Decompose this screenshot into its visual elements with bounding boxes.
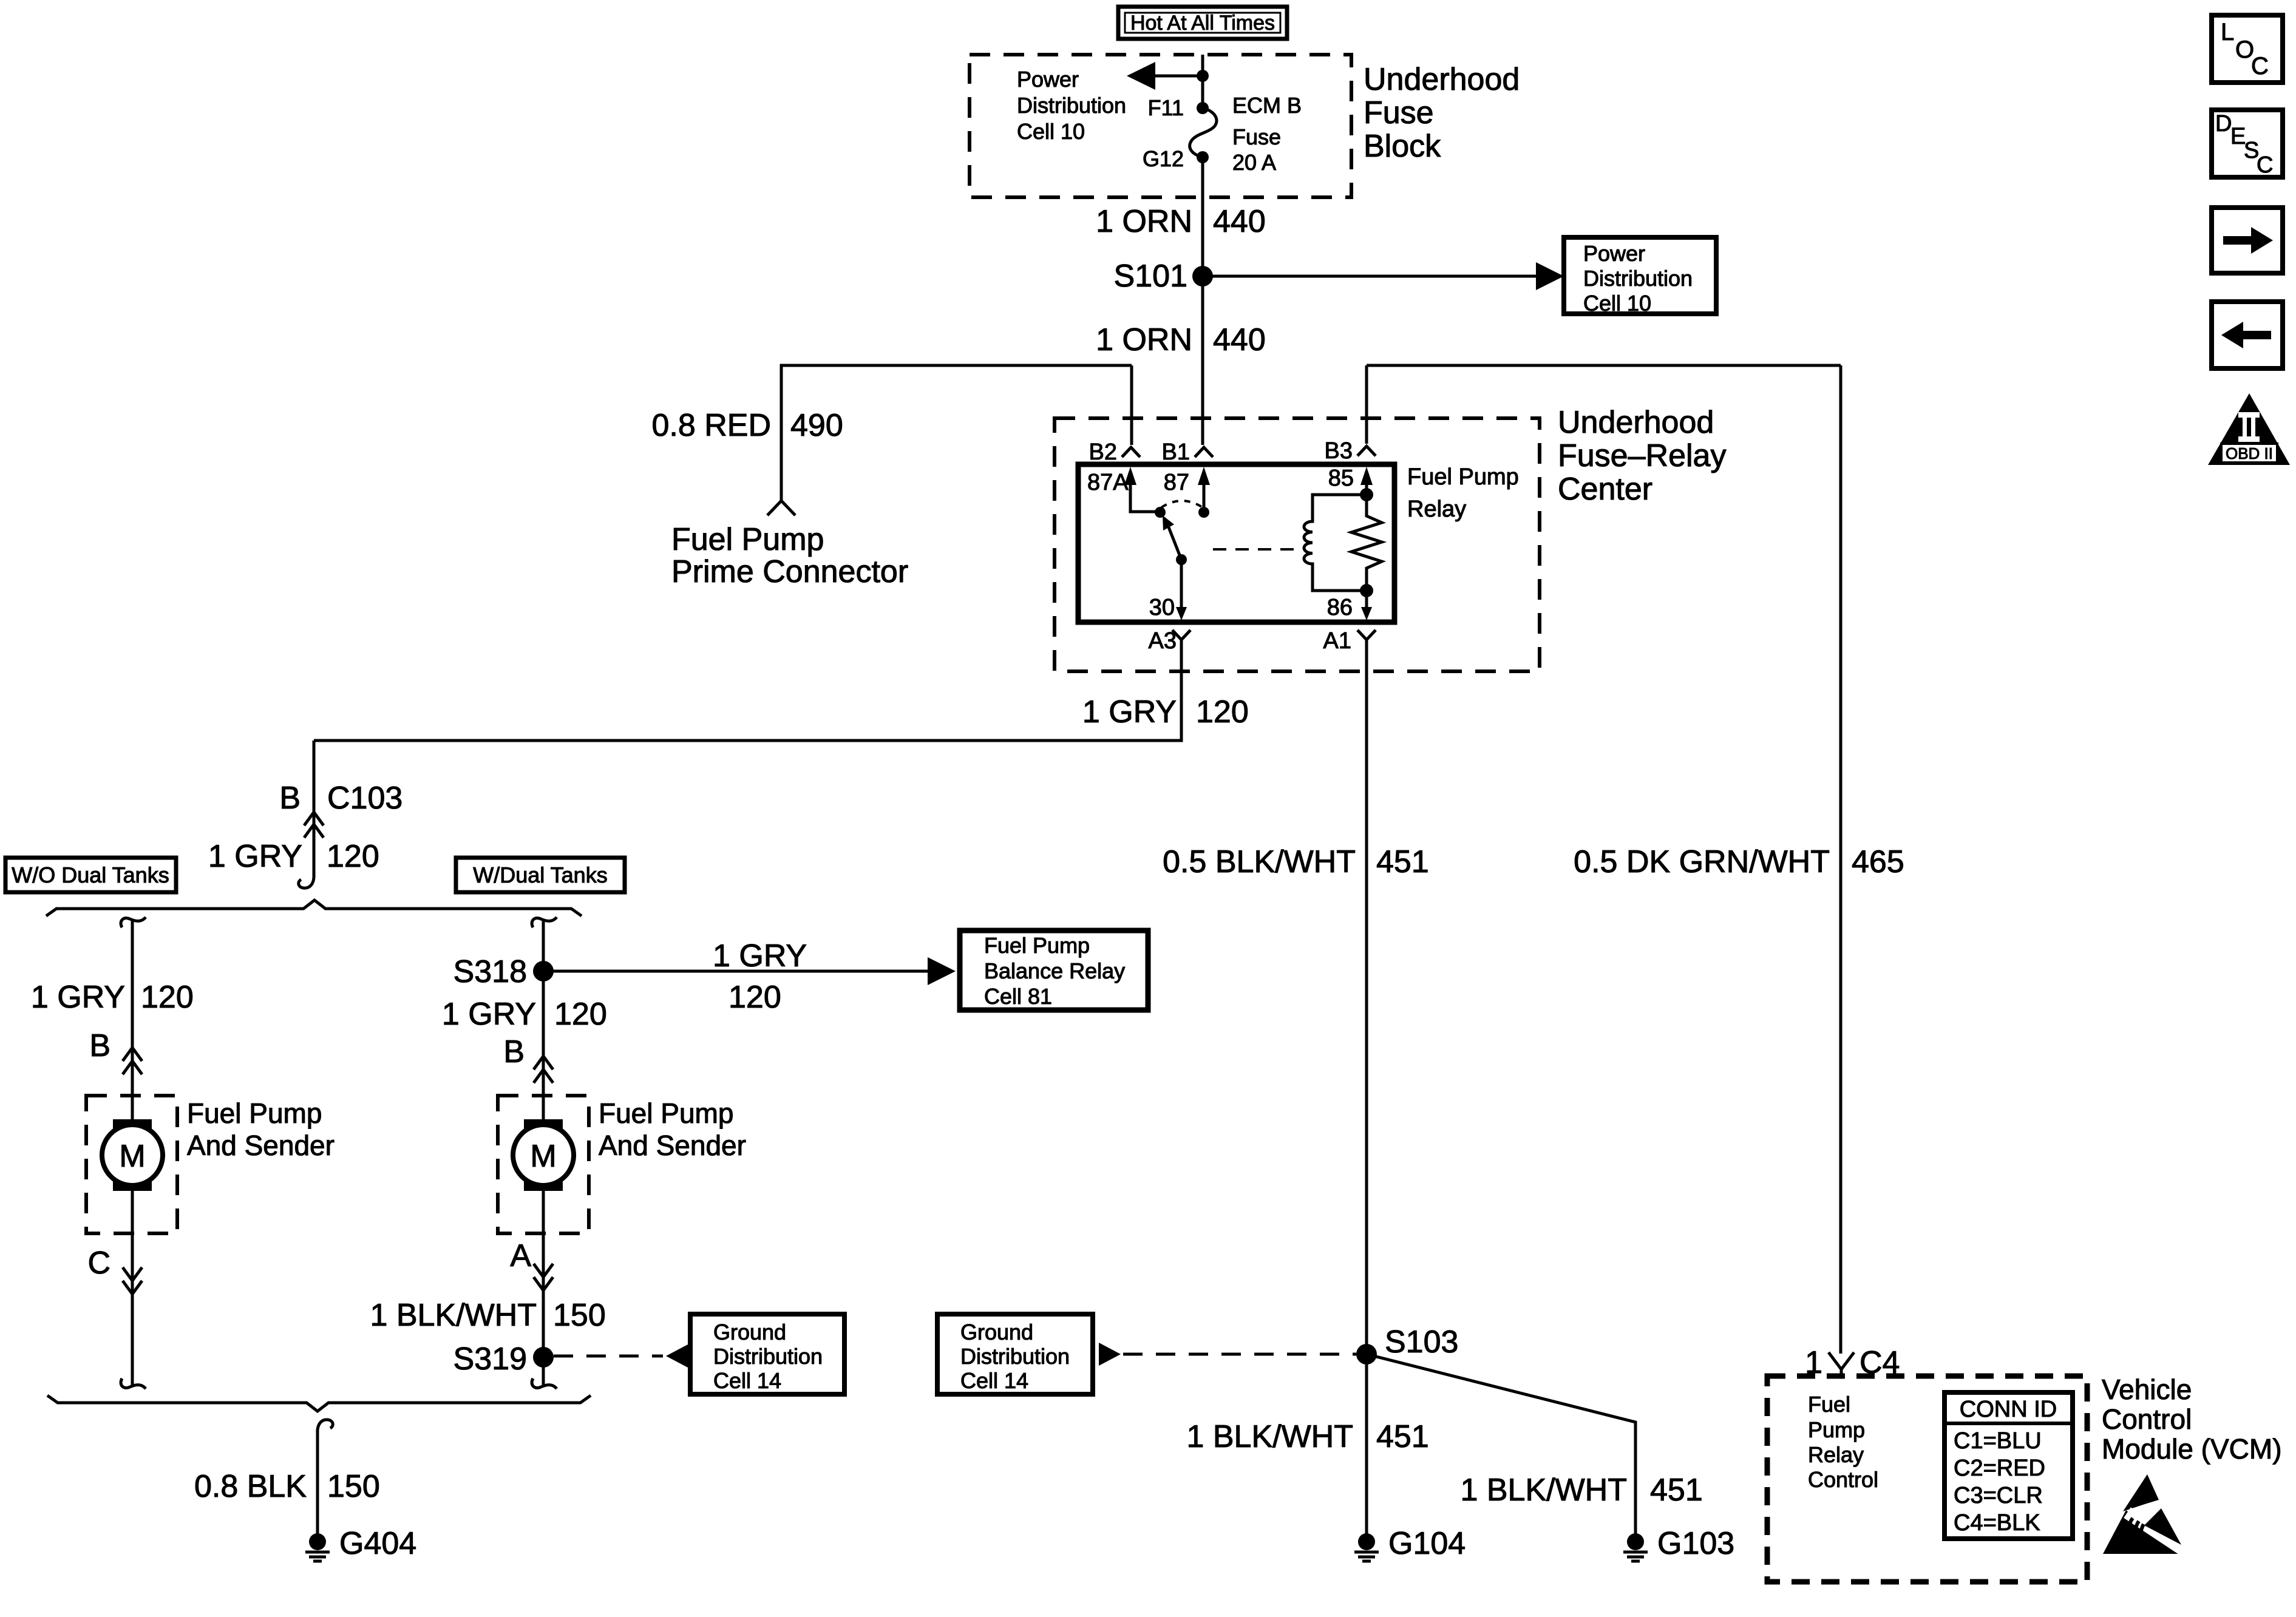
label 1 GRY 120 (left branch) xyxy=(31,980,194,1015)
inline connector chevrons (left pump feed) xyxy=(123,1048,142,1074)
svg-text:A1: A1 xyxy=(1323,628,1351,654)
svg-text:0.8 BLK: 0.8 BLK xyxy=(194,1469,307,1504)
splice S318 xyxy=(453,954,554,989)
svg-text:G12: G12 xyxy=(1143,146,1184,171)
svg-text:G103: G103 xyxy=(1657,1526,1734,1561)
svg-text:1 GRY: 1 GRY xyxy=(442,997,536,1032)
connector C103 double chevron xyxy=(304,812,324,838)
inline connector chevrons (right pump return) xyxy=(534,1264,553,1290)
svg-text:85: 85 xyxy=(1328,466,1354,491)
wire below left pump xyxy=(131,1185,134,1385)
svg-text:451: 451 xyxy=(1376,844,1429,880)
margin icon DESC box xyxy=(2212,110,2283,178)
svg-text:451: 451 xyxy=(1650,1473,1703,1508)
pin 30 arrow xyxy=(1176,560,1187,620)
svg-text:451: 451 xyxy=(1376,1419,1429,1454)
svg-text:1 BLK/WHT: 1 BLK/WHT xyxy=(1187,1419,1354,1454)
left branch continuation curl xyxy=(121,917,146,927)
ground G103 xyxy=(1623,1526,1734,1561)
svg-text:C: C xyxy=(87,1246,110,1281)
box Power Distribution Cell 10 xyxy=(1564,237,1716,316)
ground G404 xyxy=(305,1526,416,1561)
pin 87A arrow xyxy=(1124,467,1160,512)
center continuation curl below bracket xyxy=(318,1420,333,1434)
svg-text:C103: C103 xyxy=(327,781,402,816)
pin 86 arrow xyxy=(1360,584,1373,620)
svg-text:490: 490 xyxy=(790,408,843,443)
wire 1 ORN 440 fuse to S101 xyxy=(1201,157,1204,276)
option merge bracket (bottom) xyxy=(47,1395,591,1411)
relay resistor xyxy=(1351,495,1382,591)
svg-text:W/O Dual Tanks: W/O Dual Tanks xyxy=(12,863,169,887)
svg-text:120: 120 xyxy=(141,980,194,1015)
svg-text:1 ORN: 1 ORN xyxy=(1096,204,1192,239)
svg-text:Hot At All Times: Hot At All Times xyxy=(1130,12,1275,35)
svg-text:440: 440 xyxy=(1213,204,1266,239)
wire right branch to S318 xyxy=(542,921,545,1125)
svg-text:M: M xyxy=(530,1139,556,1174)
svg-text:120: 120 xyxy=(327,839,379,874)
wire 0.5 DK GRN/WHT 465 riser down to VCM xyxy=(1839,365,1843,1354)
wire S101 to Power Distribution Cell 10 xyxy=(1203,262,1564,290)
svg-text:B: B xyxy=(279,781,301,816)
pin 87 arrow xyxy=(1198,467,1210,512)
svg-text:1 GRY: 1 GRY xyxy=(1082,694,1177,730)
svg-text:150: 150 xyxy=(327,1469,380,1504)
svg-text:A3: A3 xyxy=(1149,628,1177,654)
box Fuel Pump Balance Relay Cell 81 xyxy=(960,931,1148,1010)
left branch bottom curl xyxy=(121,1378,146,1389)
CONN ID table xyxy=(1944,1392,2073,1539)
wire top horizontal to fuel pump prime connector xyxy=(781,365,1132,500)
svg-text:Fuel PumpAnd Sender: Fuel PumpAnd Sender xyxy=(187,1097,335,1161)
svg-text:1 GRY: 1 GRY xyxy=(31,980,125,1015)
underhood fuse-relay center dashed box xyxy=(1055,418,1540,671)
label 1 GRY 120 (A3 wire) xyxy=(1082,694,1249,730)
margin icon forward arrow box xyxy=(2212,208,2283,273)
svg-text:120: 120 xyxy=(1196,694,1249,730)
svg-text:C: C xyxy=(2257,152,2273,178)
svg-text:F11: F11 xyxy=(1148,95,1184,120)
pin B2 chevron xyxy=(1122,447,1140,457)
svg-text:S101: S101 xyxy=(1114,259,1187,294)
svg-text:W/Dual Tanks: W/Dual Tanks xyxy=(473,863,607,887)
wire top horizontal from relay pin B3 to VCM riser xyxy=(1367,364,1841,367)
pin 85 arrow xyxy=(1360,467,1373,501)
fuse F11/G12 ECM B Fuse 20 A xyxy=(1190,102,1217,163)
inline connector chevrons (right pump feed) xyxy=(534,1056,553,1083)
wire continuation curl above split bracket xyxy=(299,874,314,888)
relay coil xyxy=(1304,495,1367,591)
arrow to Power Distribution Cell 10 (in fuse block) xyxy=(1127,62,1209,90)
wire 0.5 BLK/WHT 451 from pin A1 down to S103 xyxy=(1365,640,1368,1354)
box Ground Distribution Cell 14 (left) xyxy=(690,1314,844,1394)
relay actuation dashed link xyxy=(1213,548,1302,551)
svg-text:1 GRY: 1 GRY xyxy=(713,938,807,974)
svg-text:0.5 BLK/WHT: 0.5 BLK/WHT xyxy=(1163,844,1356,880)
svg-text:0.5 DK GRN/WHT: 0.5 DK GRN/WHT xyxy=(1574,844,1830,880)
dashed wire S319 to ground distribution xyxy=(554,1344,688,1368)
svg-text:B1: B1 xyxy=(1162,439,1190,465)
svg-text:B: B xyxy=(503,1034,525,1070)
right fuel pump motor xyxy=(513,1119,574,1191)
splice S103 xyxy=(1356,1324,1458,1364)
label 1 ORN 440 (upper) xyxy=(1096,204,1266,239)
svg-text:L: L xyxy=(2221,19,2234,46)
pin A3 chevron xyxy=(1172,630,1190,640)
wire S103 down to G104 xyxy=(1365,1354,1368,1534)
svg-text:1 ORN: 1 ORN xyxy=(1096,322,1192,358)
svg-text:0.8 RED: 0.8 RED xyxy=(651,408,771,443)
label 1 BLK/WHT 451 (G103 wire) xyxy=(1461,1473,1703,1508)
svg-text:1 BLK/WHT: 1 BLK/WHT xyxy=(370,1298,537,1333)
ESD sensitive device symbol xyxy=(2103,1474,2183,1554)
right branch continuation curl xyxy=(532,917,557,927)
svg-text:S103: S103 xyxy=(1385,1324,1458,1360)
svg-text:120: 120 xyxy=(554,997,607,1032)
svg-text:M: M xyxy=(119,1139,145,1174)
relay K1 Fuel Pump Relay box xyxy=(1078,464,1394,622)
relay switch dashed arc xyxy=(1161,501,1203,507)
svg-text:440: 440 xyxy=(1213,322,1266,358)
label 1 ORN 440 (lower) xyxy=(1096,322,1266,358)
wire riser to relay pin B2 xyxy=(1130,365,1133,445)
option split bracket (top) xyxy=(46,900,582,916)
label 1 GRY 120 (right branch) xyxy=(442,997,607,1032)
svg-text:S318: S318 xyxy=(453,954,527,989)
svg-text:30: 30 xyxy=(1149,595,1175,620)
wire down to connector C103 xyxy=(313,741,316,877)
svg-text:120: 120 xyxy=(729,980,781,1015)
pin B1 chevron xyxy=(1195,447,1213,457)
wire S101 down to relay pin B1 xyxy=(1201,276,1204,445)
left fuel pump motor xyxy=(102,1119,163,1191)
margin icon LOC box xyxy=(2212,15,2283,83)
label 0.5 BLK/WHT 451 xyxy=(1163,844,1429,880)
svg-text:D: D xyxy=(2215,111,2232,137)
relay switch common contact and arm xyxy=(1155,507,1209,565)
left fuel pump and sender dashed box xyxy=(86,1096,177,1233)
underhood fuse block dashed box xyxy=(970,55,1351,197)
label 0.8 RED 490 xyxy=(651,408,843,443)
svg-text:B3: B3 xyxy=(1325,438,1353,464)
wire S103 diagonal to G103 xyxy=(1367,1354,1635,1534)
label 1 GRY 120 (balance relay wire) xyxy=(713,938,807,1015)
svg-text:C: C xyxy=(2251,53,2269,80)
svg-text:G104: G104 xyxy=(1388,1526,1466,1561)
label box W/O Dual Tanks xyxy=(5,858,176,892)
svg-text:150: 150 xyxy=(553,1298,606,1333)
svg-text:G404: G404 xyxy=(339,1526,416,1561)
svg-text:A: A xyxy=(510,1238,531,1273)
svg-text:S319: S319 xyxy=(453,1341,527,1377)
vehicle control module dashed box xyxy=(1767,1376,2087,1582)
svg-text:465: 465 xyxy=(1852,844,1904,880)
svg-text:87: 87 xyxy=(1164,470,1189,495)
svg-text:1 GRY: 1 GRY xyxy=(208,839,302,874)
svg-text:1 BLK/WHT: 1 BLK/WHT xyxy=(1461,1473,1628,1508)
splice S101 xyxy=(1114,259,1213,294)
inline connector chevrons (left pump return) xyxy=(123,1267,142,1294)
svg-text:OBD II: OBD II xyxy=(2226,444,2273,463)
label box W/Dual Tanks xyxy=(456,858,625,892)
label 0.5 DK GRN/WHT 465 xyxy=(1574,844,1904,880)
label box Hot At All Times xyxy=(1118,7,1287,39)
wire below right pump to S319 xyxy=(542,1185,545,1385)
label 1 GRY 120 (C103 wire) xyxy=(208,839,379,874)
box Ground Distribution Cell 14 (right) xyxy=(937,1314,1093,1394)
svg-text:B: B xyxy=(89,1028,110,1063)
pin A1 chevron xyxy=(1357,630,1376,640)
ground G104 xyxy=(1354,1526,1466,1561)
pin B3 chevron xyxy=(1357,446,1376,456)
svg-text:87A: 87A xyxy=(1087,470,1129,495)
svg-text:86: 86 xyxy=(1327,595,1353,620)
wire 0.8 BLK 150 to G404 xyxy=(316,1430,319,1534)
label 0.8 BLK 150 xyxy=(194,1469,380,1504)
splice S319 xyxy=(453,1341,554,1377)
margin icon back arrow box xyxy=(2212,302,2283,368)
dashed wire ground distribution to S103 xyxy=(1099,1343,1356,1366)
svg-text:B2: B2 xyxy=(1089,439,1117,465)
wire S318 to fuel pump balance relay xyxy=(543,957,956,985)
svg-text:Fuel PumpAnd Sender: Fuel PumpAnd Sender xyxy=(599,1097,746,1161)
label 1 BLK/WHT 451 (G104 wire) xyxy=(1187,1419,1429,1454)
connector C4 pin 1 chevron at VCM xyxy=(1805,1345,1900,1380)
label 1 BLK/WHT 150 xyxy=(370,1298,606,1333)
wire riser relay pin B3 xyxy=(1365,365,1368,444)
right fuel pump and sender dashed box xyxy=(498,1096,589,1233)
wire left branch 1 GRY 120 xyxy=(131,921,134,1125)
wire battery feed into fuse block xyxy=(1201,55,1204,108)
right branch bottom curl xyxy=(532,1378,557,1389)
margin icon OBD II triangle xyxy=(2208,393,2290,465)
connector chevron fuel pump prime xyxy=(767,501,795,515)
wire 1 GRY 120 from pin A3 xyxy=(314,640,1181,741)
svg-text:CONN ID: CONN ID xyxy=(1960,1397,2057,1422)
